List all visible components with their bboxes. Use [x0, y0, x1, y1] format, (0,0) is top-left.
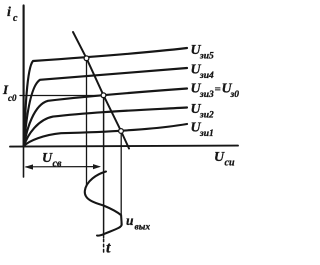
- svg-text:t: t: [106, 240, 111, 257]
- waveform u_вых: [85, 172, 122, 236]
- svg-text:св: св: [53, 159, 62, 170]
- svg-text:u: u: [126, 213, 134, 228]
- svg-text:зи5: зи5: [199, 52, 214, 62]
- svg-text:з0: з0: [230, 90, 240, 100]
- curve U_зи1: [24, 124, 187, 146]
- svg-text:U: U: [214, 150, 225, 165]
- svg-text:зи4: зи4: [199, 71, 214, 81]
- svg-text:зи2: зи2: [199, 111, 214, 121]
- projection / t-axis from operating point: [103, 98, 105, 238]
- curve U_зи4: [24, 68, 187, 146]
- t-axis dashed tail: [103, 239, 105, 254]
- y-axis i_c: [23, 6, 25, 147]
- svg-text:си: си: [225, 158, 235, 169]
- svg-text:U: U: [42, 151, 53, 166]
- svg-text:зи3: зи3: [199, 90, 214, 100]
- point A circle on load line: [84, 56, 89, 61]
- projection from point B: [120, 133, 122, 226]
- load line: [73, 32, 129, 149]
- I_C0 level line: [20, 95, 101, 97]
- svg-text:с0: с0: [8, 93, 17, 103]
- y-axis stub below x-axis: [23, 147, 25, 178]
- x-axis U_си: [10, 146, 238, 147]
- curve U_зи2: [24, 108, 187, 147]
- svg-text:зи1: зи1: [199, 129, 214, 139]
- svg-text:i: i: [7, 5, 11, 20]
- arrowhead right of U_св: [93, 164, 101, 169]
- svg-text:=: =: [215, 84, 221, 96]
- point B circle: [119, 129, 124, 134]
- operating point circle: [101, 93, 106, 98]
- svg-text:c: c: [13, 13, 18, 24]
- svg-text:вых: вых: [135, 223, 151, 233]
- curve U_зи5: [24, 48, 187, 146]
- arrowhead left of U_св: [25, 164, 34, 169]
- U_св measuring line: [26, 166, 99, 168]
- projection from point A down to waveform crest: [86, 61, 88, 187]
- curve U_зи3: [24, 89, 187, 147]
